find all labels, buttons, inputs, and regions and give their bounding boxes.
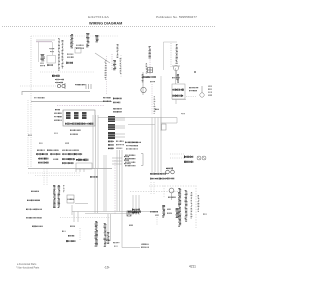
pump stub marks b: [114, 246, 117, 247]
damper aux wire: [71, 205, 73, 215]
relay K4: [108, 116, 115, 122]
compressor plug pin b: [171, 170, 175, 174]
relay header block: [113, 98, 122, 100]
note row 5: [32, 226, 43, 228]
evap ckt label vertical: [185, 190, 188, 222]
board bottom connector row1 seg2: [47, 150, 59, 151]
drop wire l: [77, 212, 79, 223]
riser bundle wire c: [157, 118, 159, 173]
left exit dashes row2: [35, 175, 80, 177]
ground bus wire: [22, 92, 90, 96]
heater R2 side marks: [146, 63, 148, 73]
condenser fan label vertical: [176, 44, 178, 64]
dashed terminator row 1: [141, 244, 149, 245]
relay K6: [108, 132, 115, 139]
cord rating line2: [55, 82, 63, 83]
connector J2 pin2: [54, 116, 62, 117]
damper bottom wire: [75, 203, 88, 205]
relay pin wire 3: [115, 125, 125, 127]
IC K2: [74, 112, 79, 119]
board mark r5: [65, 143, 69, 144]
heater R2 symbol: [148, 68, 153, 73]
wire diagonal: [95, 53, 110, 63]
small mark d2: [129, 225, 133, 226]
damper component marks: [68, 199, 74, 200]
svg-text:Publication No. 5995580477: Publication No. 5995580477: [156, 15, 197, 19]
left exit dashes: [28, 172, 80, 174]
board bottom connector row3 end marks: [77, 159, 82, 160]
sensor S4 symbol: [127, 211, 131, 216]
condenser fan stem: [176, 71, 178, 81]
control box top wire: [31, 101, 112, 103]
sensor dashed column: [106, 56, 108, 95]
fuse mark: [155, 109, 159, 110]
PTC relay label: [142, 77, 150, 78]
relay header label1: [103, 97, 111, 99]
switch small mark row1: [49, 48, 54, 49]
long riser 1: [94, 169, 96, 214]
bus label dark: [128, 211, 141, 213]
riser bundle wire b: [154, 118, 156, 173]
dashed drop wire 1: [150, 182, 152, 195]
board bottom connector row3 left a: [38, 158, 48, 160]
magenta dashed riser: [114, 160, 116, 215]
relay pin wire 4: [115, 127, 125, 129]
pump stub marks a: [113, 242, 119, 243]
right stub mark: [155, 215, 158, 216]
bottom right tiny dashes: [203, 214, 207, 215]
wire code list 1: [208, 86, 212, 87]
dashed terminator row 2: [141, 247, 149, 248]
board mark c2: [54, 132, 58, 135]
lamp housing box: [47, 56, 56, 64]
connector pin row 3: [125, 162, 135, 163]
lamp label vertical: [95, 35, 99, 42]
box corner mark: [34, 97, 44, 98]
mullion heater label vertical: [149, 46, 151, 58]
relay out wire r1: [112, 157, 122, 159]
compressor M1 motor circle: [141, 87, 146, 92]
note row 4: [26, 217, 42, 219]
connector J6 row 2: [150, 178, 166, 180]
water valve label vertical: [95, 221, 98, 246]
board bottom connector row2 seg3: [62, 153, 82, 155]
lamp housing dark label: [47, 64, 53, 66]
terminal block TB1: [76, 163, 92, 169]
bus right marks: [150, 211, 158, 213]
IC K3: [82, 112, 87, 119]
defrost heater R1 element row1: [173, 89, 184, 91]
connector J2 pin3: [54, 120, 62, 121]
lamp drop wire right: [52, 42, 54, 55]
evap fan label vertical: [178, 188, 181, 227]
board bottom connector row1 seg3: [62, 150, 79, 151]
riser wire j: [121, 150, 123, 248]
bottom bus wire 1: [72, 211, 158, 213]
connector J3 pin list 2: [116, 144, 124, 145]
condenser fan M3 base: [172, 65, 180, 67]
board drop wire 2: [105, 155, 107, 212]
evap extra marks: [191, 192, 193, 218]
dashed bus wire: [130, 191, 180, 193]
board internal wire 1: [92, 115, 94, 168]
compressor top marks: [142, 74, 144, 82]
ground wire label: [75, 84, 85, 85]
riser bundle wire d: [160, 118, 162, 173]
lower dotted wire: [40, 71, 95, 73]
lamp feed wire upper: [36, 39, 55, 41]
connector J3 dark row 3: [108, 148, 114, 150]
pigtail mark c: [124, 156, 129, 157]
condenser fan stem marks: [172, 77, 180, 78]
left border dotted wire: [30, 36, 32, 168]
lamp L1 mark row2: [40, 65, 45, 66]
inline fuse F1: [162, 124, 167, 130]
connector pin row 4: [125, 165, 135, 166]
terminal strip dark: [76, 159, 88, 162]
light shield label vertical: [62, 40, 64, 68]
service cord label: [52, 75, 60, 77]
connector J2 pin1: [54, 113, 62, 114]
defrost thermostat label1: [189, 87, 198, 88]
pin row bracket: [141, 154, 143, 166]
defrost heater box: [172, 84, 185, 99]
icemaker label vertical: [104, 223, 107, 247]
board lower label1: [70, 130, 80, 131]
wire tag BRN: [76, 45, 84, 46]
freezer light label vertical: [58, 38, 60, 71]
dashed riser condenser fan: [170, 43, 172, 68]
connector J3 dark row 1: [108, 141, 114, 143]
lamp feed wire: [36, 41, 52, 43]
connector pin row 2: [125, 158, 135, 159]
relay pin wire 6: [115, 136, 125, 138]
riser bundle wire a: [151, 118, 153, 173]
harness pin label 2: [126, 148, 138, 149]
board drop wire 1: [103, 155, 105, 212]
sensor label vertical: [117, 44, 119, 58]
connector J2 label: [55, 109, 60, 110]
heater H3 bar: [176, 208, 179, 218]
bottom bus wire 2: [85, 213, 130, 215]
terminal tick 3: [90, 84, 92, 89]
evap box dashed top: [149, 185, 196, 187]
connector pin row 1: [125, 155, 135, 156]
heater bottom stub: [175, 100, 177, 105]
lamp L1 mark row1: [40, 63, 44, 64]
riser wire j corner: [122, 247, 140, 249]
lamp drop wire left: [38, 42, 40, 62]
overload dashed wire: [151, 84, 153, 115]
control box bottom wire: [28, 168, 112, 170]
evap box dashed left: [163, 186, 165, 199]
harness dash right 1: [170, 153, 184, 155]
pigtail mark b: [124, 163, 131, 164]
bottom left mark P6: [70, 226, 75, 227]
connector J3 pin list 3: [116, 148, 122, 149]
dashed drop wire 2: [153, 182, 155, 195]
condenser drop wire: [160, 76, 162, 108]
damper upper marks: [63, 185, 65, 192]
dotted wire to plug: [20, 85, 56, 87]
riser bundle bottom 1: [107, 214, 109, 241]
left exit drop 2: [46, 169, 48, 186]
relay feed vline: [160, 108, 162, 131]
board mark N1: [28, 135, 32, 136]
connector J6 row 1: [150, 173, 166, 175]
junction dot: [194, 71, 196, 73]
board bottom connector row3 right a: [62, 158, 75, 160]
condenser feed corner wire: [164, 42, 178, 70]
drop wire g: [138, 195, 140, 215]
relay header label2: [103, 101, 111, 102]
wire tag WHT: [76, 48, 84, 49]
dashed riser mullion heater: [149, 48, 151, 75]
harness connector label: [125, 142, 141, 144]
bimetal lead: [201, 86, 203, 93]
bimetal S2 symbol: [200, 93, 204, 97]
heater bottom cluster: [143, 76, 156, 78]
evap fan aux mark: [168, 197, 176, 198]
board internal wire 3: [97, 115, 99, 168]
plug symbol 1: [197, 156, 201, 160]
heater bottom wire: [172, 99, 186, 101]
connector pair J7 row1: [184, 156, 193, 159]
plug P1 pin a: [57, 84, 60, 87]
IC K1: [66, 112, 71, 119]
aux column marks: [120, 58, 122, 74]
left exit drop 1: [43, 169, 45, 186]
long riser 2: [97, 169, 99, 214]
plug label dark: [166, 178, 174, 180]
terminal tick 2: [88, 84, 90, 89]
bottom dashed bus: [60, 217, 110, 219]
heater H2 label1: [167, 209, 171, 210]
junction box: [75, 48, 81, 54]
board bottom connector row3 mid: [53, 159, 58, 160]
note row 3: [26, 209, 42, 211]
door switch label vertical: [86, 33, 89, 47]
harness pin label 1: [126, 145, 138, 146]
connector pair J7 row2: [184, 161, 193, 163]
svg-text:* Non-functional Parts: * Non-functional Parts: [16, 267, 40, 270]
main harness wire top: [98, 117, 177, 119]
bottom left mark TJ: [62, 231, 66, 232]
note row 1: [31, 191, 39, 192]
board bottom connector row2 seg2: [50, 153, 60, 155]
damper component box: [67, 195, 74, 203]
board lower label2: [70, 134, 78, 135]
terminal tick 1: [85, 84, 87, 89]
pigtail mark a: [124, 160, 129, 161]
light switch label vertical: [70, 34, 73, 48]
defrost coil symbol: [177, 74, 179, 83]
defrost sensor label2: [132, 212, 139, 214]
faint mark right: [181, 113, 185, 114]
header separator dotted line: [2, 26, 216, 28]
relay pin wire 2: [115, 119, 125, 121]
condenser fan M3 symbol: [173, 65, 178, 70]
overload wire marks: [154, 96, 156, 114]
riser bundle bottom 2: [110, 214, 112, 241]
evap box dashed right: [195, 186, 197, 229]
relay pin wire 5: [115, 133, 125, 135]
top border dotted wire: [31, 35, 118, 37]
board silk text: [65, 123, 93, 125]
svg-text:WIRING DIAGRAM: WIRING DIAGRAM: [89, 22, 122, 26]
dashed riser thermostat: [111, 54, 113, 70]
sensor column marks: [105, 60, 107, 79]
wire code list 2: [208, 89, 212, 90]
riser wire i: [119, 150, 121, 212]
dotted link: [186, 96, 196, 98]
pin label P1-4: [67, 57, 74, 58]
defrost heater R1 element row2: [173, 95, 184, 97]
relay out wire r3: [112, 163, 122, 165]
relay aux blob: [113, 108, 122, 110]
overload label: [150, 81, 155, 82]
drop wire k: [73, 212, 75, 223]
lamp L1 hatch component: [41, 54, 45, 61]
box exit tick 3: [83, 169, 85, 173]
damper label vertical bar: [58, 185, 61, 208]
control board U1 outline: [63, 110, 95, 126]
relay aux blob2: [113, 111, 122, 113]
plug symbol 2: [202, 156, 206, 160]
bottom mark P4: [106, 240, 110, 241]
right stub dashed: [156, 217, 158, 225]
svg-text:-19-: -19-: [104, 266, 110, 270]
dashed stub: [79, 228, 81, 240]
harness label below box: [90, 176, 98, 178]
aux contact mark top: [166, 168, 173, 170]
harness wire 2: [128, 124, 155, 126]
svg-text:4211: 4211: [189, 265, 196, 269]
board bottom connector row2 seg1: [36, 153, 48, 155]
relay pin wire 1: [115, 117, 125, 119]
wire code list 4: [208, 95, 212, 96]
board internal wire 2: [95, 115, 97, 168]
plug P1 face: [64, 83, 66, 89]
defrost sensor label: [132, 209, 140, 211]
evap fan lead: [171, 193, 173, 200]
control box left dotted edge: [27, 100, 29, 168]
dashed board boundary: [57, 105, 104, 107]
bottom left mark a: [68, 235, 74, 236]
heater H2 label2: [167, 213, 172, 214]
compressor wire: [142, 72, 144, 95]
thermostat label vertical: [113, 60, 116, 70]
evap fan motor M2: [169, 188, 174, 193]
relay header block2: [113, 102, 120, 104]
wire code list 3: [208, 92, 212, 93]
riser wire h: [116, 150, 118, 212]
board mark dots: [39, 143, 43, 144]
bottom cluster icemaker wires: [107, 232, 109, 244]
relay out wire r2: [112, 160, 122, 162]
relay K5: [108, 124, 115, 130]
aux dashed column: [120, 55, 122, 78]
box exit tick 2: [79, 169, 81, 173]
junction block dark: [66, 62, 73, 64]
compressor plug pin a: [166, 170, 170, 174]
defrost thermostat label2: [189, 90, 197, 91]
heater H2 bar: [162, 205, 165, 217]
connector J3 dark row 2: [108, 144, 114, 146]
harness dash right 2: [170, 157, 184, 159]
box exit tick 1: [75, 169, 77, 173]
svg-text:E32TR14A: E32TR14A: [88, 15, 109, 19]
note row 2: [27, 200, 40, 202]
thermostat label vertical bar: [53, 185, 56, 208]
ground label vertical: [198, 195, 200, 212]
board bottom connector row3 right b: [62, 162, 73, 164]
board bottom connector row1 seg1: [37, 150, 45, 151]
board bottom connector row3 left b: [38, 162, 48, 164]
bottom left dark block: [66, 240, 75, 242]
pin label P1-3: [67, 54, 73, 55]
drop wire f: [135, 195, 137, 215]
relay feed corner: [161, 118, 177, 124]
drop wire e: [132, 195, 134, 215]
cord rating line1: [55, 79, 64, 80]
heater lead: [175, 68, 177, 84]
switch small mark row2: [50, 51, 54, 52]
plug P1 pin b: [62, 84, 65, 87]
connector J3 pin list 1: [116, 141, 124, 142]
